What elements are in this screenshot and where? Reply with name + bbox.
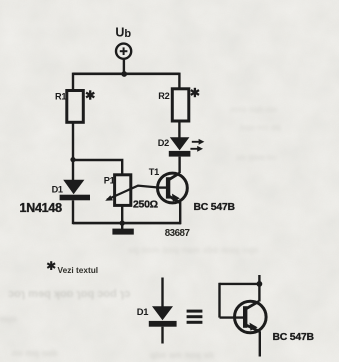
resistor R2 xyxy=(172,89,189,121)
wire loop bottom (to base) xyxy=(220,316,244,318)
wire D1 to bottom rail xyxy=(72,200,74,224)
resistor R1 xyxy=(67,91,84,123)
node junction R1/D1/P1 xyxy=(70,157,75,162)
wire node to D1 xyxy=(72,160,74,181)
LED light arrow lower xyxy=(190,146,203,152)
svg-text:D2: D2 xyxy=(158,138,169,148)
LED D2 cathode bar xyxy=(169,151,191,157)
svg-text:oq nsm boq nam xbo msq oqn: oq nsm boq nam xbo msq oqn xyxy=(128,245,259,255)
LED light arrow upper xyxy=(192,139,205,145)
svg-text:b: b xyxy=(124,28,131,40)
equivalence diode D1 bottom wire xyxy=(161,327,163,344)
wire bottom rail xyxy=(73,222,181,225)
asterisk for R1 xyxy=(86,90,94,99)
svg-text:ɔoɿ mɘq ʞoɒ ɿɒq ɔod ɿɔ: ɔoɿ mɘq ʞoɒ ɿɒq ɔod ɿɔ xyxy=(8,288,130,300)
supply terminal circle with + xyxy=(116,44,131,59)
svg-text:R1: R1 xyxy=(55,91,66,101)
wire loop left xyxy=(218,283,220,318)
ghost smudges bottom xyxy=(0,314,215,360)
T1 emitter arrow xyxy=(172,194,180,202)
T1 emitter lead xyxy=(168,195,181,203)
node junction ground xyxy=(120,220,125,225)
wire rail to ground xyxy=(121,223,123,230)
svg-text:P1: P1 xyxy=(104,176,115,186)
eq base bar xyxy=(243,306,247,328)
T1 base lead xyxy=(157,186,167,188)
wire left drop to R1 xyxy=(72,73,74,91)
svg-text:BC 547B: BC 547B xyxy=(273,332,315,343)
svg-text:R2: R2 xyxy=(158,91,169,101)
diode D1 triangle xyxy=(63,180,84,194)
asterisk footnote xyxy=(47,261,55,270)
svg-text:on qbm no: on qbm no xyxy=(236,153,277,162)
equivalent sign xyxy=(187,310,203,324)
svg-text:D1: D1 xyxy=(52,184,63,194)
T1 base bar xyxy=(166,177,170,198)
ghost text row (back-page bleed, upper mid-right) xyxy=(128,105,281,255)
wire supply to rail xyxy=(123,59,125,74)
ground symbol xyxy=(112,229,133,235)
node junction on top rail xyxy=(121,71,127,77)
T1 collector lead xyxy=(168,173,180,181)
wire R1 to node xyxy=(72,122,74,159)
svg-text:no mq oab: no mq oab xyxy=(12,348,58,358)
transistor U-eq circle xyxy=(235,301,267,333)
equivalence diode D1 cathode bar xyxy=(149,321,177,327)
svg-text:250Ω: 250Ω xyxy=(133,199,158,211)
LED D2 triangle xyxy=(170,137,190,150)
svg-text:T1: T1 xyxy=(149,167,159,177)
wire P1 bottom to rail xyxy=(121,205,123,223)
svg-text:BC 547B: BC 547B xyxy=(194,202,236,213)
equivalence diode D1 top wire xyxy=(161,278,163,308)
P1 wiper arrow to T1 base xyxy=(107,186,157,200)
label Ub xyxy=(115,25,131,40)
svg-text:mna oqb nm: mna oqb nm xyxy=(230,105,278,114)
svg-text:nqo: nqo xyxy=(0,314,17,324)
wire loop top xyxy=(220,283,260,285)
svg-text:D1: D1 xyxy=(137,306,148,317)
svg-text:1N4148: 1N4148 xyxy=(20,201,63,215)
ghost text (back-page bleed, bottom-left) xyxy=(8,288,130,300)
potentiometer P1 body xyxy=(115,175,131,206)
wire R2 to D2 xyxy=(178,121,180,138)
eq collector lead xyxy=(245,301,259,309)
diode D1 cathode bar xyxy=(60,195,90,201)
svg-text:U: U xyxy=(115,25,124,39)
transistor T1 circle xyxy=(158,173,188,203)
asterisk for R2 xyxy=(191,88,199,97)
svg-text:83687: 83687 xyxy=(165,228,191,239)
wire node to P1 top xyxy=(73,160,122,175)
eq emitter wire down xyxy=(259,331,261,356)
svg-text:bqo mn oq: bqo mn oq xyxy=(240,123,281,132)
equivalence diode D1 triangle xyxy=(152,306,173,320)
wire D2 to T1 collector xyxy=(178,157,180,173)
wire right drop to R2 xyxy=(178,73,180,89)
wire T1 emitter to rail xyxy=(179,202,181,224)
wire top rail xyxy=(73,73,180,76)
eq emitter lead xyxy=(245,324,260,331)
eq emitter arrow xyxy=(250,323,258,331)
svg-text:qbo am noq sb: qbo am noq sb xyxy=(150,350,215,360)
node junction collector/loop xyxy=(257,281,263,287)
svg-text:Vezi textul: Vezi textul xyxy=(58,265,99,275)
eq collector wire up xyxy=(258,275,260,302)
